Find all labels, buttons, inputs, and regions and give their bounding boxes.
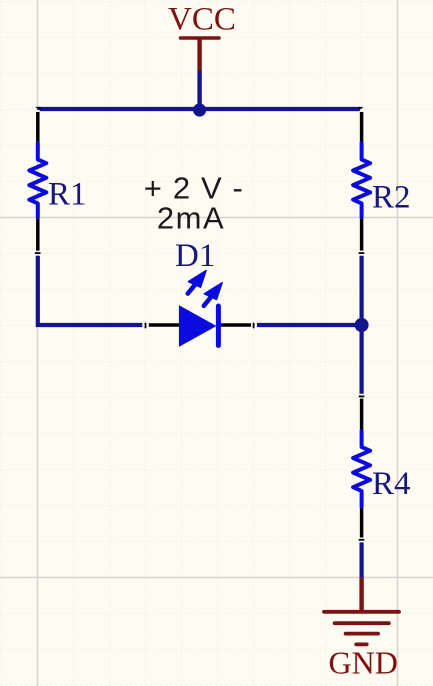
pin end marker (R4 top): [359, 396, 365, 398]
pin end marker (D1 anode): [145, 323, 147, 329]
svg-text:VCC: VCC: [168, 2, 236, 38]
wire VCC to top rail: [197, 71, 201, 110]
wire junction to R4: [360, 325, 364, 394]
junction LED/R2/R4 node: [355, 318, 369, 332]
vertex sparkle right corner: [363, 104, 368, 109]
wire R1 bottom to LED left: [36, 256, 143, 325]
pin end marker (R4 bottom): [359, 539, 365, 541]
svg-text:R4: R4: [372, 466, 411, 502]
resistor R1: [29, 112, 86, 251]
pin end marker (R2 top, corner): [359, 107, 365, 112]
svg-text:2mA: 2mA: [157, 201, 225, 236]
wire LED right to junction: [257, 323, 362, 327]
pin end marker (R2 bottom): [359, 252, 365, 254]
resistor R4: [353, 399, 410, 538]
svg-text:GND: GND: [329, 645, 398, 681]
LED D1: [149, 238, 251, 346]
ground GND: [324, 578, 399, 681]
power port VCC: [168, 2, 236, 71]
wire R2 bottom to junction: [360, 256, 364, 325]
svg-text:R2: R2: [372, 180, 411, 216]
resistor R2: [353, 112, 410, 251]
vertex sparkle left corner: [32, 104, 37, 110]
junction VCC node: [193, 103, 206, 116]
pin end marker (D1 cathode): [253, 323, 255, 329]
svg-text:D1: D1: [175, 238, 215, 274]
wire top rail: [37, 107, 361, 111]
pin end marker (R1 top, corner): [35, 107, 41, 112]
svg-text:R1: R1: [48, 177, 87, 213]
pin end marker (R1 bottom): [35, 252, 41, 254]
annotation +2V 2mA: [144, 171, 244, 236]
wire R4 bottom to ground: [360, 542, 364, 577]
